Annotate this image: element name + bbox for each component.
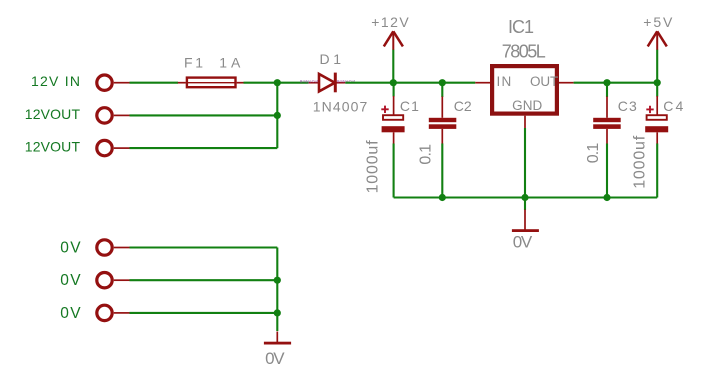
net label 12VOUT (row 2) (25, 106, 81, 122)
svg-text:12V IN: 12V IN (31, 73, 80, 89)
svg-text:0V: 0V (513, 233, 533, 252)
wire up to +12V symbol (392, 50, 394, 83)
value 0.1 (C2, vertical) (418, 144, 435, 165)
label D1 (320, 51, 342, 67)
power symbol +12V (384, 31, 403, 49)
tiny net name text on diode wire (300, 79, 355, 83)
wire OUT to +5V node (574, 82, 658, 84)
wire pin1 to fuse (130, 82, 179, 84)
fuse F1 (178, 78, 244, 88)
svg-text:0V: 0V (265, 349, 285, 368)
pin label IN (497, 74, 513, 89)
svg-text:1000uf: 1000uf (365, 140, 382, 194)
label 0V (lower ground) (265, 349, 285, 368)
junction node +5V (657,82.7) (654, 79, 661, 86)
wire IC GND to rail (524, 128, 526, 198)
wire row2 pin to bus (130, 114, 278, 116)
pin label OUT (530, 74, 558, 89)
label 1N4007 (313, 98, 368, 114)
ground symbol 0V (lower left) (264, 342, 291, 345)
svg-text:C3: C3 (618, 98, 637, 114)
junction node rail GND (521, 194, 528, 201)
net label 0V (row C) (60, 305, 81, 322)
wire stub to lower ground (276, 332, 278, 343)
svg-text:C2: C2 (454, 98, 472, 114)
wire vertical bus x=277 top (276, 83, 278, 148)
svg-text:7805L: 7805L (502, 42, 546, 62)
pin label GND (512, 98, 542, 113)
label C4 (663, 98, 683, 114)
wire row C to bus (130, 312, 278, 314)
svg-text:C1: C1 (400, 98, 419, 114)
net label 12V IN (31, 73, 80, 89)
value 1000uf (C4, vertical) (631, 135, 648, 189)
label +12V (371, 14, 409, 30)
connector pin 12V IN (97, 75, 130, 90)
svg-text:0V: 0V (60, 305, 81, 322)
junction node rail C2 (439, 194, 446, 201)
svg-text:0V: 0V (60, 272, 81, 289)
wire row B to bus (130, 279, 278, 281)
svg-text:GND: GND (512, 98, 542, 113)
label 0V (center ground) (513, 233, 533, 252)
svg-text:0.1: 0.1 (585, 143, 602, 164)
label 1A (219, 55, 241, 71)
capacitor C3 (0.1) (593, 83, 621, 198)
connector pin 12VOUT (row 2) (97, 108, 130, 123)
wire up to +5V symbol (656, 50, 658, 83)
wire row A to bus (130, 246, 278, 248)
label IC1 (508, 17, 534, 37)
label C2 (454, 98, 472, 114)
junction node +12V (393,82.7) (390, 79, 397, 86)
pin wire GND below IC (524, 116, 526, 128)
svg-text:OUT: OUT (530, 74, 558, 89)
svg-text:1000uf: 1000uf (631, 135, 648, 189)
connector pin 0V (row C) (97, 305, 130, 320)
svg-text:+5V: +5V (643, 14, 673, 30)
junction node C3 (607,82.7) (603, 79, 610, 86)
svg-text:C4: C4 (663, 98, 683, 114)
connector pin 0V (row B) (97, 273, 130, 288)
svg-text:12VOUT: 12VOUT (25, 106, 81, 122)
wire rail to ground symbol (524, 198, 526, 230)
diode D1 (309, 73, 346, 93)
svg-text:1N4007: 1N4007 (313, 98, 368, 114)
svg-text:0V: 0V (60, 240, 81, 257)
wire fuse to diode (244, 82, 309, 84)
wire row3 pin to bus (130, 147, 278, 149)
value 1000uf (C1, vertical) (365, 140, 382, 194)
svg-text:1A: 1A (219, 55, 241, 71)
label C1 (400, 98, 419, 114)
junction node row2 (277,115.4) (274, 112, 281, 119)
capacitor C2 (0.1) (429, 83, 457, 198)
power symbol +5V (648, 31, 667, 49)
connector pin 12VOUT (row 3) (97, 140, 130, 155)
svg-text:12VOUT: 12VOUT (25, 139, 81, 155)
pin wire out of OUT (559, 82, 574, 84)
svg-text:IC1: IC1 (508, 17, 534, 37)
junction node at fuse output (277,82.7) (274, 79, 281, 86)
capacitor C4 (polarized 1000uf) (645, 83, 668, 198)
ground symbol 0V (center) (512, 229, 539, 232)
svg-text:BridgeOut: BridgeOut (300, 79, 318, 83)
plus sign of C4 (646, 106, 653, 113)
wire diode to IC1 IN (345, 82, 475, 84)
junction node C2 (442,82.7) (439, 79, 446, 86)
svg-text:+12V: +12V (371, 14, 409, 30)
wire bottom ground rail (394, 196, 658, 198)
label 7805L (502, 42, 546, 62)
capacitor C1 (polarized 1000uf) (382, 83, 405, 198)
junction node row C (274, 309, 281, 316)
svg-text:0.1: 0.1 (418, 144, 435, 165)
net label 0V (row B) (60, 272, 81, 289)
label C3 (618, 98, 637, 114)
junction node row B (274, 277, 281, 284)
IC1 7805L regulator body (492, 66, 557, 114)
value 0.1 (C3, vertical) (585, 143, 602, 164)
junction node rail C3 (603, 194, 610, 201)
wire vertical bus x=277 bottom (276, 248, 278, 332)
pin wire into IN (475, 82, 490, 84)
label +5V (643, 14, 673, 30)
net label 0V (row A) (60, 240, 81, 257)
plus sign of C1 (381, 106, 388, 113)
label F1 (184, 55, 203, 71)
connector pin 0V (row A) (97, 240, 130, 255)
svg-text:IN: IN (497, 74, 513, 89)
net label 12VOUT (row 3) (25, 139, 81, 155)
